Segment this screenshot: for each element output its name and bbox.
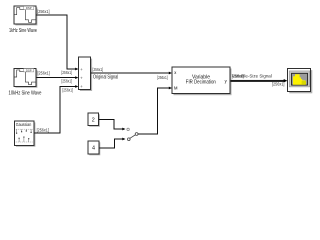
svg-text:[256x1]: [256x1] [61,70,72,75]
block Constant 2 [88,113,100,127]
wire w7: Const4 to switch lower [99,139,122,148]
svg-text:FIR Decimation: FIR Decimation [186,80,216,86]
svg-text:Original Signal: Original Signal [93,74,118,80]
wire w6: Const2 to switch upper [99,120,123,129]
wire w1: Sine1 to Sum in1 [36,15,75,69]
Gaussian icon dashed lines [16,128,33,130]
block Sine1 (1kHz Sine Wave) [14,6,37,25]
svg-text:M: M [174,86,178,91]
svg-text:2: 2 [92,117,95,123]
svg-text:10kHz Sine Wave: 10kHz Sine Wave [9,90,42,96]
block Sine2 (10kHz Sine Wave) [14,68,37,87]
svg-text:[256x1]: [256x1] [157,75,168,80]
switch lever [130,135,135,138]
svg-text:1kHz Sine Wave: 1kHz Sine Wave [9,28,37,34]
svg-text:[256x1]: [256x1] [62,88,73,93]
switch upper contact [127,128,129,130]
svg-text:[256x1]: [256x1] [37,127,49,132]
svg-text:[256x1]: [256x1] [272,82,285,87]
wire w4: Sum out to FIR x [91,72,169,74]
block Scope (Spectrum display) [288,68,313,93]
svg-text:+: + [80,76,83,81]
svg-text:DSP: DSP [26,68,32,72]
svg-text:Gaussian: Gaussian [16,122,32,127]
svg-text:4: 4 [92,146,95,152]
wire w3: Gaussian to Sum in3 [34,87,75,134]
wire w5: switch to FIR M [138,88,169,134]
Sine2 staircase icon [15,70,36,85]
wire w2: Sine2 to Sum in2 [36,77,75,79]
block Variable FIR Decimation [172,67,232,95]
svg-text:[256x1]: [256x1] [38,70,50,75]
Sine1 DSP tag [24,6,34,9]
wire w8: FIR out to Scope (thick variable-size signal) [231,80,285,82]
svg-text:[256x1]: [256x1] [37,9,49,14]
svg-text:DSP: DSP [26,6,32,10]
scope bezel [289,71,310,87]
svg-text:[256x1]: [256x1] [232,74,244,79]
svg-text:+: + [80,84,83,89]
manual switch [127,128,138,140]
svg-text:[256x1]: [256x1] [93,67,104,72]
switch lower contact [128,138,131,141]
Gaussian icon stems [17,129,32,142]
svg-text:+: + [80,67,83,72]
svg-text:[256x1]: [256x1] [61,78,72,83]
block Gaussian (Random Source) [15,121,36,147]
block Sum [79,57,93,91]
scope yellow spectrum [293,74,305,85]
Sine2 DSP tag [24,69,34,72]
Sine1 staircase icon [15,8,36,23]
block Constant 4 [88,141,100,155]
switch output contact [135,133,138,136]
scope plot area [292,73,308,85]
